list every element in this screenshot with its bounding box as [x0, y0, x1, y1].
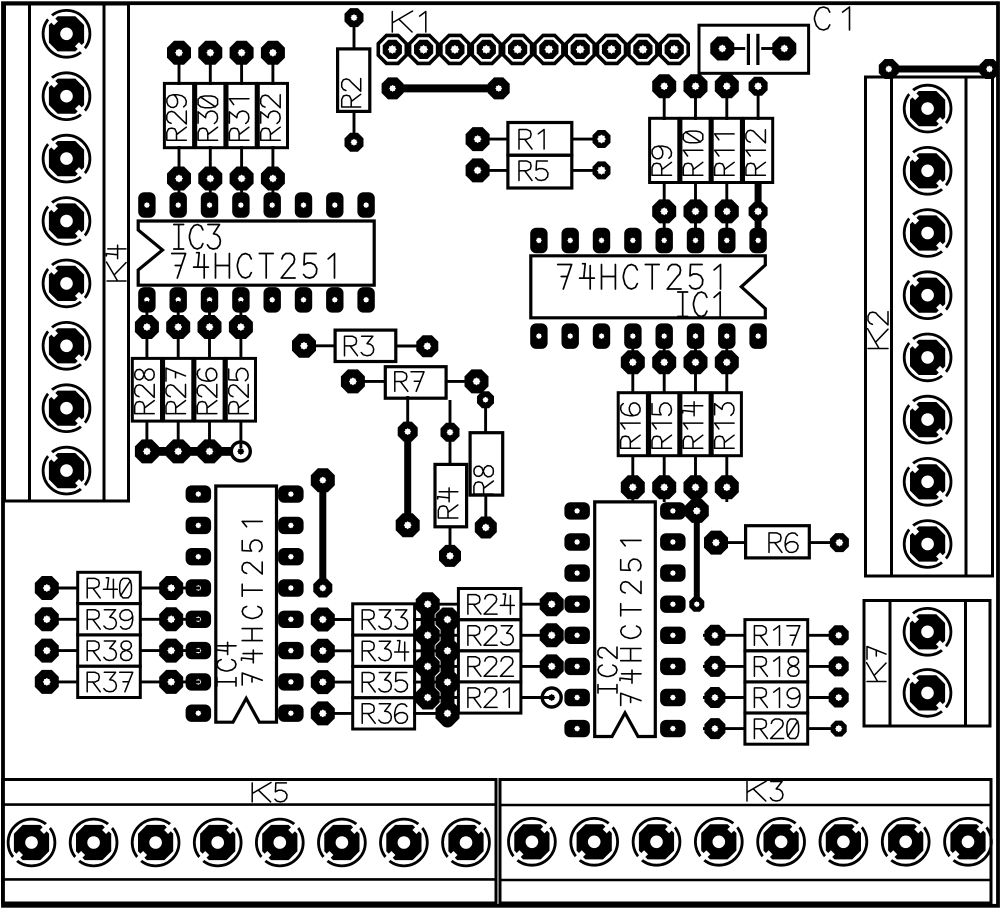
IC2 pin 12 (right column)	[660, 627, 686, 644]
K4 screw terminal pin 6	[43, 322, 90, 369]
IC3 pin 9 (bottom row)	[357, 287, 374, 313]
IC2 pin 5 (left column)	[564, 627, 590, 644]
IC3 pin 6 (top row)	[295, 192, 312, 218]
resistor R25	[226, 301, 255, 448]
K4 screw terminal pin 4	[43, 198, 90, 245]
resistor R2	[338, 8, 370, 152]
resistor R22	[428, 651, 564, 682]
IC3 pin 2 (top row)	[170, 192, 187, 218]
IC3 pin 3 (top row)	[201, 192, 218, 218]
resistor R15	[650, 340, 679, 502]
K1 header pin 9	[629, 35, 657, 63]
K3 screw terminal pin 3	[633, 818, 680, 865]
IC4 pin 13 (right column)	[278, 579, 304, 596]
IC2 pin 15 (right column)	[660, 533, 686, 550]
connector K3 body	[500, 780, 991, 904]
IC4 pin 7 (left column)	[186, 673, 212, 690]
resistor R4	[435, 400, 467, 567]
IC4 pin 3 (left column)	[186, 548, 212, 565]
IC3 pin 14 (bottom row)	[201, 287, 218, 313]
IC1 pin 9 (bottom row)	[749, 323, 766, 349]
label K5	[252, 783, 287, 802]
K5 screw terminal pin 3	[132, 819, 179, 866]
label 74HCT251 (IC1)	[558, 264, 721, 289]
K3 screw terminal pin 1	[509, 818, 556, 865]
resistor R24	[428, 589, 564, 620]
IC1 pin 2 (top row)	[562, 228, 579, 254]
wire (vertical trace right of IC2)	[685, 499, 709, 612]
IC1 pin 15 (bottom row)	[562, 323, 579, 349]
IC1 pin 10 (bottom row)	[718, 323, 735, 349]
K3 screw terminal pin 7	[882, 818, 929, 865]
IC1 pin 14 (bottom row)	[593, 323, 610, 349]
K1 header pin 4	[472, 35, 500, 63]
IC4 pin 14 (right column)	[278, 548, 304, 565]
bus wire column A (R21-R24 left pads)	[416, 592, 440, 709]
resistor R28	[132, 301, 161, 448]
wire above K2	[879, 59, 1000, 79]
resistor R37	[35, 666, 200, 697]
label C1	[815, 7, 850, 30]
K5 screw terminal pin 4	[194, 819, 241, 866]
K5 screw terminal pin 5	[256, 819, 303, 866]
IC3 pin 10 (bottom row)	[326, 287, 343, 313]
IC4 pin 10 (right column)	[278, 673, 304, 690]
IC2 pin 1 (left column)	[564, 502, 590, 519]
resistor R18	[703, 651, 849, 682]
resistor R14	[681, 340, 710, 502]
label IC3	[174, 225, 221, 250]
IC4 pin 9 (right column)	[278, 705, 304, 722]
IC1 pin 16 (bottom row)	[530, 323, 547, 349]
label K4	[106, 245, 126, 281]
IC4 pin 15 (right column)	[278, 517, 304, 534]
resistor R17	[703, 620, 849, 651]
label 74HCT251 (IC4)	[242, 521, 263, 685]
label K7	[867, 647, 886, 682]
IC3 pin 13 (bottom row)	[232, 287, 249, 313]
IC2 pin 4 (left column)	[564, 596, 590, 613]
IC2 pin 16 (right column)	[660, 502, 686, 519]
op-amp IC1 body (74HCT251)	[531, 256, 766, 318]
label 74HCT251 (IC2)	[620, 540, 641, 705]
K2 screw terminal pin 7	[904, 458, 951, 505]
resistor R39	[35, 604, 200, 635]
K5 screw terminal pin 7	[381, 819, 428, 866]
IC2 pin 14 (right column)	[660, 564, 686, 581]
IC3 pin 11 (bottom row)	[295, 287, 312, 313]
K1 header pin 3	[441, 35, 469, 63]
K1 header pin 7	[566, 35, 594, 63]
IC1 pin 13 (bottom row)	[624, 323, 641, 349]
K3 screw terminal pin 8	[945, 818, 992, 865]
IC4 pin 4 (left column)	[186, 579, 212, 596]
IC2 pin 13 (right column)	[660, 596, 686, 613]
resistor R31	[227, 41, 256, 206]
label 74HCT251 (IC3)	[172, 253, 335, 278]
resistor R12	[744, 77, 773, 230]
IC2 pin 6 (left column)	[564, 658, 590, 675]
wire from K1 area	[382, 77, 510, 99]
bus wire column B (R33-R36 right pads)	[436, 608, 460, 726]
K4 screw terminal pin 3	[43, 135, 90, 182]
resistor R16	[618, 340, 647, 502]
label IC4	[216, 642, 236, 686]
resistor R27	[164, 301, 193, 448]
connector K5 body	[3, 780, 497, 904]
resistor R19	[703, 682, 849, 713]
IC2 pin 3 (left column)	[564, 564, 590, 581]
resistor R10	[681, 74, 710, 230]
K7 screw terminal pin 2	[904, 670, 951, 717]
IC4 pin 2 (left column)	[186, 517, 212, 534]
resistor R7	[341, 367, 489, 399]
resistor R3	[292, 330, 438, 361]
label K3	[747, 781, 783, 801]
resistor R5	[466, 155, 611, 188]
IC3 pin 4 (top row)	[232, 192, 249, 218]
IC4 pin 12 (right column)	[278, 611, 304, 628]
connector K4 body	[5, 4, 129, 501]
resistor R6	[704, 526, 849, 558]
resistor R40	[35, 572, 200, 603]
IC1 pin 5 (top row)	[656, 228, 673, 254]
K3 screw terminal pin 6	[820, 818, 867, 865]
IC1 pin 7 (top row)	[718, 228, 735, 254]
K5 screw terminal pin 2	[70, 819, 117, 866]
K1 header pin 6	[535, 35, 563, 63]
K4 screw terminal pin 7	[43, 385, 90, 432]
resistor R9	[650, 74, 679, 230]
connector K7 body	[864, 601, 990, 727]
IC4 pin 8 (left column)	[186, 705, 212, 722]
IC1 pin 1 (top row)	[530, 228, 547, 254]
IC3 pin 8 (top row)	[357, 192, 374, 218]
K2 screw terminal pin 5	[904, 334, 951, 381]
K4 screw terminal pin 8	[43, 447, 90, 494]
resistor R21	[428, 682, 561, 713]
wire (vertical trace left of R4)	[396, 396, 420, 537]
K7 screw terminal pin 1	[904, 608, 951, 655]
K1 header pin 8	[598, 35, 626, 63]
op-amp IC2 body (74HCT251)	[595, 502, 656, 737]
IC4 pin 6 (left column)	[186, 642, 212, 659]
IC3 pin 1 (top row)	[138, 192, 155, 218]
IC1 pin 11 (bottom row)	[687, 323, 704, 349]
IC4 pin 16 (right column)	[278, 485, 304, 502]
K5 screw terminal pin 8	[443, 819, 490, 866]
resistor R20	[703, 713, 847, 744]
K1 header pin 1	[378, 35, 406, 63]
resistor R33	[311, 604, 447, 635]
label K1	[392, 11, 426, 32]
K4 screw terminal pin 1	[43, 10, 90, 57]
IC4 pin 1 (left column)	[186, 485, 212, 502]
resistor R1	[466, 123, 611, 156]
IC2 pin 10 (right column)	[660, 689, 686, 706]
label K2	[868, 312, 888, 349]
resistor R8	[470, 391, 503, 538]
resistor R32	[258, 41, 287, 206]
connector K2 body	[866, 77, 993, 576]
IC4 pin 5 (left column)	[186, 611, 212, 628]
K4 screw terminal pin 2	[43, 73, 90, 120]
IC3 pin 12 (bottom row)	[264, 287, 281, 313]
K2 screw terminal pin 6	[904, 396, 951, 443]
resistor R30	[196, 41, 225, 206]
K5 screw terminal pin 1	[8, 819, 55, 866]
K2 screw terminal pin 4	[904, 272, 951, 319]
K4 screw terminal pin 5	[43, 260, 90, 307]
IC3 pin 5 (top row)	[264, 192, 281, 218]
K2 screw terminal pin 2	[904, 147, 951, 194]
resistor R11	[712, 74, 741, 230]
K3 screw terminal pin 2	[571, 818, 618, 865]
IC2 pin 7 (left column)	[564, 689, 590, 706]
IC3 pin 15 (bottom row)	[170, 287, 187, 313]
resistor R26	[195, 301, 224, 448]
K1 header pin 10	[660, 35, 688, 63]
K5 screw terminal pin 6	[319, 819, 366, 866]
op-amp IC4 body (74HCT251)	[216, 486, 277, 722]
op-amp IC3 body (74HCT251)	[138, 221, 374, 285]
capacitor C1	[699, 25, 809, 73]
label IC1	[678, 292, 720, 317]
IC1 pin 3 (top row)	[593, 228, 610, 254]
IC3 pin 16 (bottom row)	[138, 287, 155, 313]
resistor R38	[35, 635, 200, 666]
IC2 pin 11 (right column)	[660, 658, 686, 675]
K2 screw terminal pin 1	[904, 85, 951, 132]
bus wire under R25-R28	[135, 439, 250, 463]
K2 screw terminal pin 3	[904, 210, 951, 257]
resistor R34	[311, 635, 447, 666]
K3 screw terminal pin 4	[695, 818, 742, 865]
IC1 pin 6 (top row)	[687, 228, 704, 254]
IC1 pin 12 (bottom row)	[656, 323, 673, 349]
IC2 pin 9 (right column)	[660, 720, 686, 737]
resistor R23	[428, 620, 564, 651]
K1 header pin 2	[410, 35, 438, 63]
K3 screw terminal pin 5	[758, 818, 805, 865]
resistor R29	[164, 41, 193, 206]
resistor R35	[311, 666, 447, 697]
K2 screw terminal pin 8	[904, 521, 951, 568]
IC2 pin 8 (left column)	[564, 720, 590, 737]
resistor R36	[311, 698, 447, 729]
IC1 pin 4 (top row)	[624, 228, 641, 254]
IC3 pin 7 (top row)	[326, 192, 343, 218]
resistor R13	[712, 340, 741, 502]
K1 header pin 5	[504, 35, 532, 63]
label IC2	[598, 647, 617, 693]
IC2 pin 2 (left column)	[564, 533, 590, 550]
IC4 pin 11 (right column)	[278, 642, 304, 659]
wire (vertical trace right of IC4)	[311, 468, 335, 597]
IC1 pin 8 (top row)	[749, 228, 766, 254]
